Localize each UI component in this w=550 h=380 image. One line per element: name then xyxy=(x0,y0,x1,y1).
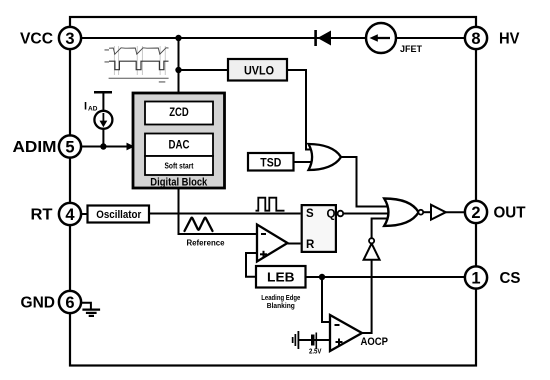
svg-text:2: 2 xyxy=(471,204,480,222)
svg-text:GND: GND xyxy=(21,295,56,312)
svg-text:6: 6 xyxy=(65,294,74,312)
svg-text:AOCP: AOCP xyxy=(361,336,389,348)
svg-text:Q: Q xyxy=(327,209,336,221)
svg-text:Digital Block: Digital Block xyxy=(150,177,208,189)
svg-text:1: 1 xyxy=(471,270,480,288)
svg-text:8: 8 xyxy=(471,30,480,48)
svg-text:CS: CS xyxy=(500,270,521,287)
svg-text:4: 4 xyxy=(65,206,75,224)
svg-text:DAC: DAC xyxy=(169,137,190,151)
svg-text:R: R xyxy=(306,239,315,251)
svg-text:ZCD: ZCD xyxy=(169,107,189,119)
svg-text:ADIM: ADIM xyxy=(13,139,57,156)
svg-text:AD: AD xyxy=(88,106,98,113)
svg-text:Blanking: Blanking xyxy=(267,301,295,310)
svg-text:S: S xyxy=(306,208,314,220)
svg-text:Soft start: Soft start xyxy=(165,162,194,171)
svg-text:VCC: VCC xyxy=(20,31,53,48)
svg-text:TSD: TSD xyxy=(260,155,281,169)
svg-text:2.5V: 2.5V xyxy=(309,349,322,356)
svg-text:3: 3 xyxy=(65,30,74,48)
svg-text:JFET: JFET xyxy=(400,44,422,54)
svg-text:I: I xyxy=(84,101,87,113)
svg-text:UVLO: UVLO xyxy=(244,64,274,78)
svg-text:LEB: LEB xyxy=(267,270,295,285)
svg-text:Oscillator: Oscillator xyxy=(96,209,142,221)
svg-text:OUT: OUT xyxy=(494,205,526,222)
svg-text:5: 5 xyxy=(65,139,74,157)
svg-text:Reference: Reference xyxy=(187,238,225,248)
svg-text:HV: HV xyxy=(499,31,520,48)
svg-text:RT: RT xyxy=(31,207,53,224)
